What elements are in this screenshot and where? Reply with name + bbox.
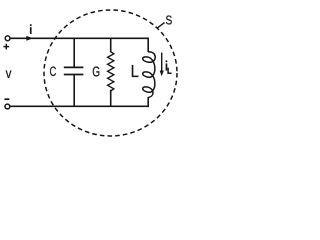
leader line to label S [157,23,165,29]
terminal + (top left, open circle) [5,36,10,41]
plus sign [3,46,9,48]
minus sign [5,98,10,100]
conductance G top lead [110,38,112,53]
inductor L top lead [147,38,149,53]
wire: top bus [10,37,149,39]
wire: bottom bus [10,105,149,107]
conductance G bottom lead [110,90,112,107]
label iL [166,60,168,62]
resistor zigzag G [108,52,114,91]
svg-text:C: C [49,63,56,79]
inductor current arrow iL [161,53,163,73]
svg-text:v: v [6,65,12,81]
capacitor C1 bottom lead [73,75,75,107]
current arrow i on top wire [26,36,33,41]
inductor L coil loops [143,52,156,98]
svg-text:G: G [92,64,100,80]
surface S dashed boundary [44,10,177,136]
svg-text:L: L [131,62,139,81]
capacitor C1 top lead [73,38,75,68]
capacitor C1 plates [64,66,84,68]
inductor L bottom lead [147,97,149,107]
terminal - (bottom left, open circle) [5,104,10,109]
svg-text:S: S [165,15,172,28]
label i [30,24,32,26]
